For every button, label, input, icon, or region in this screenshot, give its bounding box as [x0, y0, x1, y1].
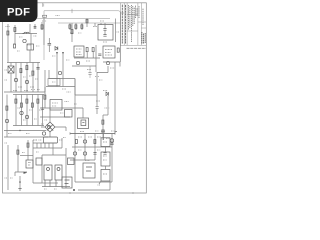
- component box K1: [83, 163, 95, 178]
- cluster: input stage under badge: [7, 24, 37, 50]
- wire horizontal rail y23: [58, 22, 120, 24]
- resistor R24: [26, 99, 28, 103]
- resistor R4: [26, 66, 28, 70]
- wire: [103, 96, 108, 140]
- resistor R16: [94, 140, 96, 144]
- wire: [103, 114, 108, 116]
- label center: [52, 56, 70, 82]
- strip inner marks: [103, 142, 107, 174]
- ic internal box: [81, 120, 86, 126]
- wire: [42, 95, 44, 126]
- capacitor C12: [93, 153, 96, 155]
- arrow: [56, 52, 58, 54]
- capacitor C14: [96, 107, 99, 109]
- resistor R23: [32, 71, 34, 75]
- junction mark: [115, 131, 118, 133]
- wire: [57, 52, 63, 87]
- title block dark cell: [142, 32, 145, 44]
- terminal ticks: [45, 180, 56, 187]
- wire: [48, 38, 50, 52]
- wire: [105, 147, 107, 170]
- wire: [105, 19, 116, 43]
- capacitor C15: [88, 66, 91, 78]
- wire: [89, 66, 91, 78]
- wire rail y183: [42, 182, 58, 184]
- wire rail y108: [40, 107, 75, 109]
- cluster: small parts near x90 y72: [62, 70, 103, 93]
- transistor Q14: [20, 111, 23, 114]
- ground: [18, 189, 21, 191]
- component box P1: [44, 137, 58, 143]
- component box K2: [62, 177, 72, 188]
- wire: [26, 95, 28, 126]
- mid box text: [52, 102, 77, 107]
- diode D2: [106, 92, 108, 96]
- wire horizontal rail y18.5: [37, 18, 110, 20]
- labels output rows: [78, 137, 101, 150]
- winding circle: [57, 168, 60, 171]
- wire right rail: [114, 62, 116, 134]
- component box U7: [50, 100, 62, 111]
- wire rail y148: [33, 147, 62, 149]
- capacitor C1: [34, 27, 37, 29]
- component box U3: [103, 46, 115, 58]
- capacitor C6: [98, 54, 101, 56]
- resistor R20: [27, 143, 29, 147]
- resistor R29: [43, 15, 47, 17]
- component box U2: [74, 46, 84, 57]
- U3 text: [105, 50, 112, 56]
- arrow mains: [24, 172, 28, 174]
- capacitor C7: [41, 108, 44, 110]
- label texts ladder A: [5, 70, 39, 87]
- svg-text:PDF: PDF: [7, 7, 30, 19]
- label rail start: [42, 16, 60, 22]
- transistor Q11: [83, 152, 86, 155]
- labels top right: [70, 21, 120, 42]
- wire rail y160: [70, 159, 95, 161]
- PDF badge: [0, 0, 38, 22]
- resistor R11: [117, 48, 119, 52]
- component box U1: [98, 25, 113, 41]
- labels right mid: [86, 61, 115, 68]
- resistor R25: [31, 103, 33, 107]
- wire rail y147: [72, 146, 112, 148]
- cluster: right column small parts: [101, 92, 108, 140]
- transistor Q3: [58, 71, 61, 74]
- wire rail y143: [33, 142, 57, 144]
- resistor R22: [14, 44, 16, 48]
- wire rail y137: [4, 136, 48, 138]
- capacitor C3: [48, 44, 52, 46]
- transformer T1 winding 1: [44, 165, 52, 180]
- wire: [42, 148, 66, 188]
- component box U6: [48, 79, 60, 86]
- wire rail y62.5: [7, 62, 40, 64]
- cluster: top right row: [69, 19, 116, 43]
- resistor R8: [81, 25, 83, 29]
- cluster: driver board center bottom: [33, 138, 70, 188]
- wire: [75, 79, 83, 134]
- transformer T1 winding 2: [55, 165, 62, 180]
- transformer core: [47, 168, 50, 171]
- component box X1: [27, 44, 34, 50]
- junction dot: [19, 181, 21, 183]
- cluster: bottom right relay and strip: [62, 138, 112, 191]
- wire: [19, 176, 21, 188]
- resistor R2: [14, 28, 16, 32]
- transistor Q1: [23, 39, 26, 42]
- component box small: [68, 158, 75, 165]
- wire: [75, 45, 97, 95]
- wire rail y187: [42, 186, 70, 188]
- resistor R5: [41, 25, 43, 29]
- wire: [20, 63, 22, 93]
- labels lower rails: [8, 134, 37, 141]
- wire rail y125.5: [13, 125, 44, 127]
- wire: [30, 34, 32, 51]
- resistor R10: [92, 48, 94, 52]
- transistor Q15: [25, 115, 28, 118]
- title block: [121, 3, 147, 46]
- resistor R7: [75, 25, 77, 29]
- terminal strip TB2 row2: [101, 152, 110, 166]
- rail end tick: [70, 132, 115, 135]
- wire rail y155: [42, 154, 66, 156]
- transistor Q5: [106, 61, 109, 64]
- wire rail y58: [74, 57, 100, 59]
- resistor R1: [7, 31, 9, 35]
- label text input: [6, 27, 38, 46]
- wire rail y155.5: [20, 155, 33, 157]
- wire: [8, 46, 30, 62]
- wire rail y117: [40, 116, 70, 118]
- cluster: right mid stage one: [72, 45, 101, 95]
- labels bottom right: [85, 139, 113, 161]
- cluster: left ladder B (y94.5-125.5): [5, 87, 46, 137]
- transistor Q8: [83, 140, 86, 143]
- transistor Q12: [25, 80, 28, 83]
- wire: [15, 25, 37, 45]
- capacitor C10: [101, 130, 104, 132]
- cluster: left lower rails: [4, 130, 48, 137]
- wire: [15, 63, 17, 93]
- wire: [6, 95, 8, 138]
- resistor R6: [69, 25, 71, 29]
- node tick top rail: [71, 9, 73, 13]
- label upper left: [17, 46, 40, 51]
- frame zone tick top: [43, 3, 44, 7]
- wire: [96, 95, 98, 114]
- BR1 inner circle: [48, 126, 51, 129]
- wire: [70, 23, 101, 30]
- transistor Q16: [42, 132, 45, 135]
- wire: [7, 24, 9, 46]
- wire: [32, 95, 34, 126]
- component box S1: [26, 160, 33, 168]
- wire: [37, 95, 39, 126]
- cluster: far right stage: [97, 45, 120, 134]
- junction dot: [19, 130, 20, 131]
- terminal strip TB2 row3: [101, 170, 110, 182]
- wire: [8, 140, 42, 190]
- cluster: regulator box: [70, 79, 115, 135]
- wire vertical x72: [71, 23, 73, 42]
- wire: [32, 63, 34, 93]
- wire: [45, 70, 49, 92]
- resistor R9: [86, 48, 88, 52]
- wire: [103, 45, 120, 67]
- labels driver board: [33, 138, 66, 190]
- U2 text: [76, 49, 82, 55]
- resistor R26: [37, 99, 39, 103]
- resistor R14: [20, 103, 22, 107]
- wire: [10, 63, 12, 93]
- wire: [42, 19, 44, 46]
- wire: [41, 108, 66, 137]
- wire: [97, 66, 108, 73]
- transistor Q13: [5, 119, 8, 122]
- labels bridge: [41, 113, 64, 124]
- terminal strip TB2 row1: [101, 138, 110, 147]
- bridge rectifier BR1: [45, 122, 55, 132]
- sheet label text: [127, 47, 147, 49]
- capacitor C2: [36, 68, 39, 70]
- resistor R27: [44, 95, 46, 99]
- labels bottom left: [5, 143, 101, 185]
- wire: [78, 181, 110, 190]
- capacitor C4: [103, 29, 106, 31]
- wire rail y86.5: [46, 86, 75, 88]
- wire: [74, 79, 76, 96]
- wire: [15, 172, 27, 176]
- component box F1: [36, 158, 42, 165]
- wire rail y182: [75, 181, 112, 183]
- labels ladder B: [13, 90, 42, 121]
- cluster: left ladder A (y62-92): [4, 63, 45, 93]
- wire: [75, 134, 112, 161]
- connector J1: [8, 66, 14, 73]
- wire: [26, 63, 28, 93]
- cluster: upper left boxes: [8, 44, 34, 62]
- resistor R12: [6, 106, 8, 110]
- main enclosure wire top: [44, 11, 120, 62]
- junction dot: [73, 189, 75, 191]
- transistor Q4: [76, 61, 79, 64]
- labels regulator: [80, 130, 115, 133]
- wire: [37, 143, 53, 148]
- wire: [75, 158, 112, 182]
- wire: [30, 24, 35, 34]
- resistor R30: [86, 19, 88, 23]
- resistor R21: [102, 120, 104, 124]
- component box U5: [78, 118, 89, 129]
- frame zone tick bottom: [70, 192, 133, 194]
- wire rail y92: [4, 91, 45, 93]
- wire: [53, 138, 62, 155]
- capacitor C5: [103, 35, 106, 37]
- wire rail y66: [72, 65, 96, 67]
- wire rail y94.5: [13, 94, 44, 96]
- transistor Q10: [73, 152, 76, 155]
- wire rail y78.5: [49, 78, 75, 80]
- switch mark: [28, 163, 31, 166]
- wire: [87, 52, 93, 58]
- capacitor C8: [110, 143, 113, 145]
- cluster: bridge rectifier area: [40, 108, 75, 143]
- resistor R19: [17, 150, 19, 154]
- labels right column: [96, 91, 110, 109]
- transistor Q2: [14, 78, 17, 81]
- resistor R28: [110, 139, 113, 142]
- title block vertical text: [122, 4, 125, 44]
- wire: [86, 19, 88, 28]
- cluster: center top (bias network): [41, 19, 75, 93]
- resistor R13: [15, 99, 17, 103]
- resistor R3: [20, 69, 22, 73]
- wire: [15, 95, 17, 126]
- wire rail y130.5: [4, 130, 46, 132]
- component box U4: [65, 110, 73, 118]
- cluster: output stage rows: [70, 134, 114, 161]
- inductor L1: [23, 32, 30, 33]
- resistor R15: [75, 140, 77, 144]
- wire: [21, 95, 23, 126]
- resistor R31: [71, 30, 73, 34]
- arrow: [62, 52, 64, 54]
- diode D1: [55, 47, 58, 51]
- wire: [37, 63, 39, 93]
- transistor Q17: [102, 130, 105, 133]
- wire rail y133.5: [70, 133, 115, 135]
- wire: [44, 87, 46, 108]
- cluster: bottom left mains: [8, 140, 42, 190]
- ic internal dot: [82, 122, 84, 124]
- capacitor C13: [103, 153, 106, 155]
